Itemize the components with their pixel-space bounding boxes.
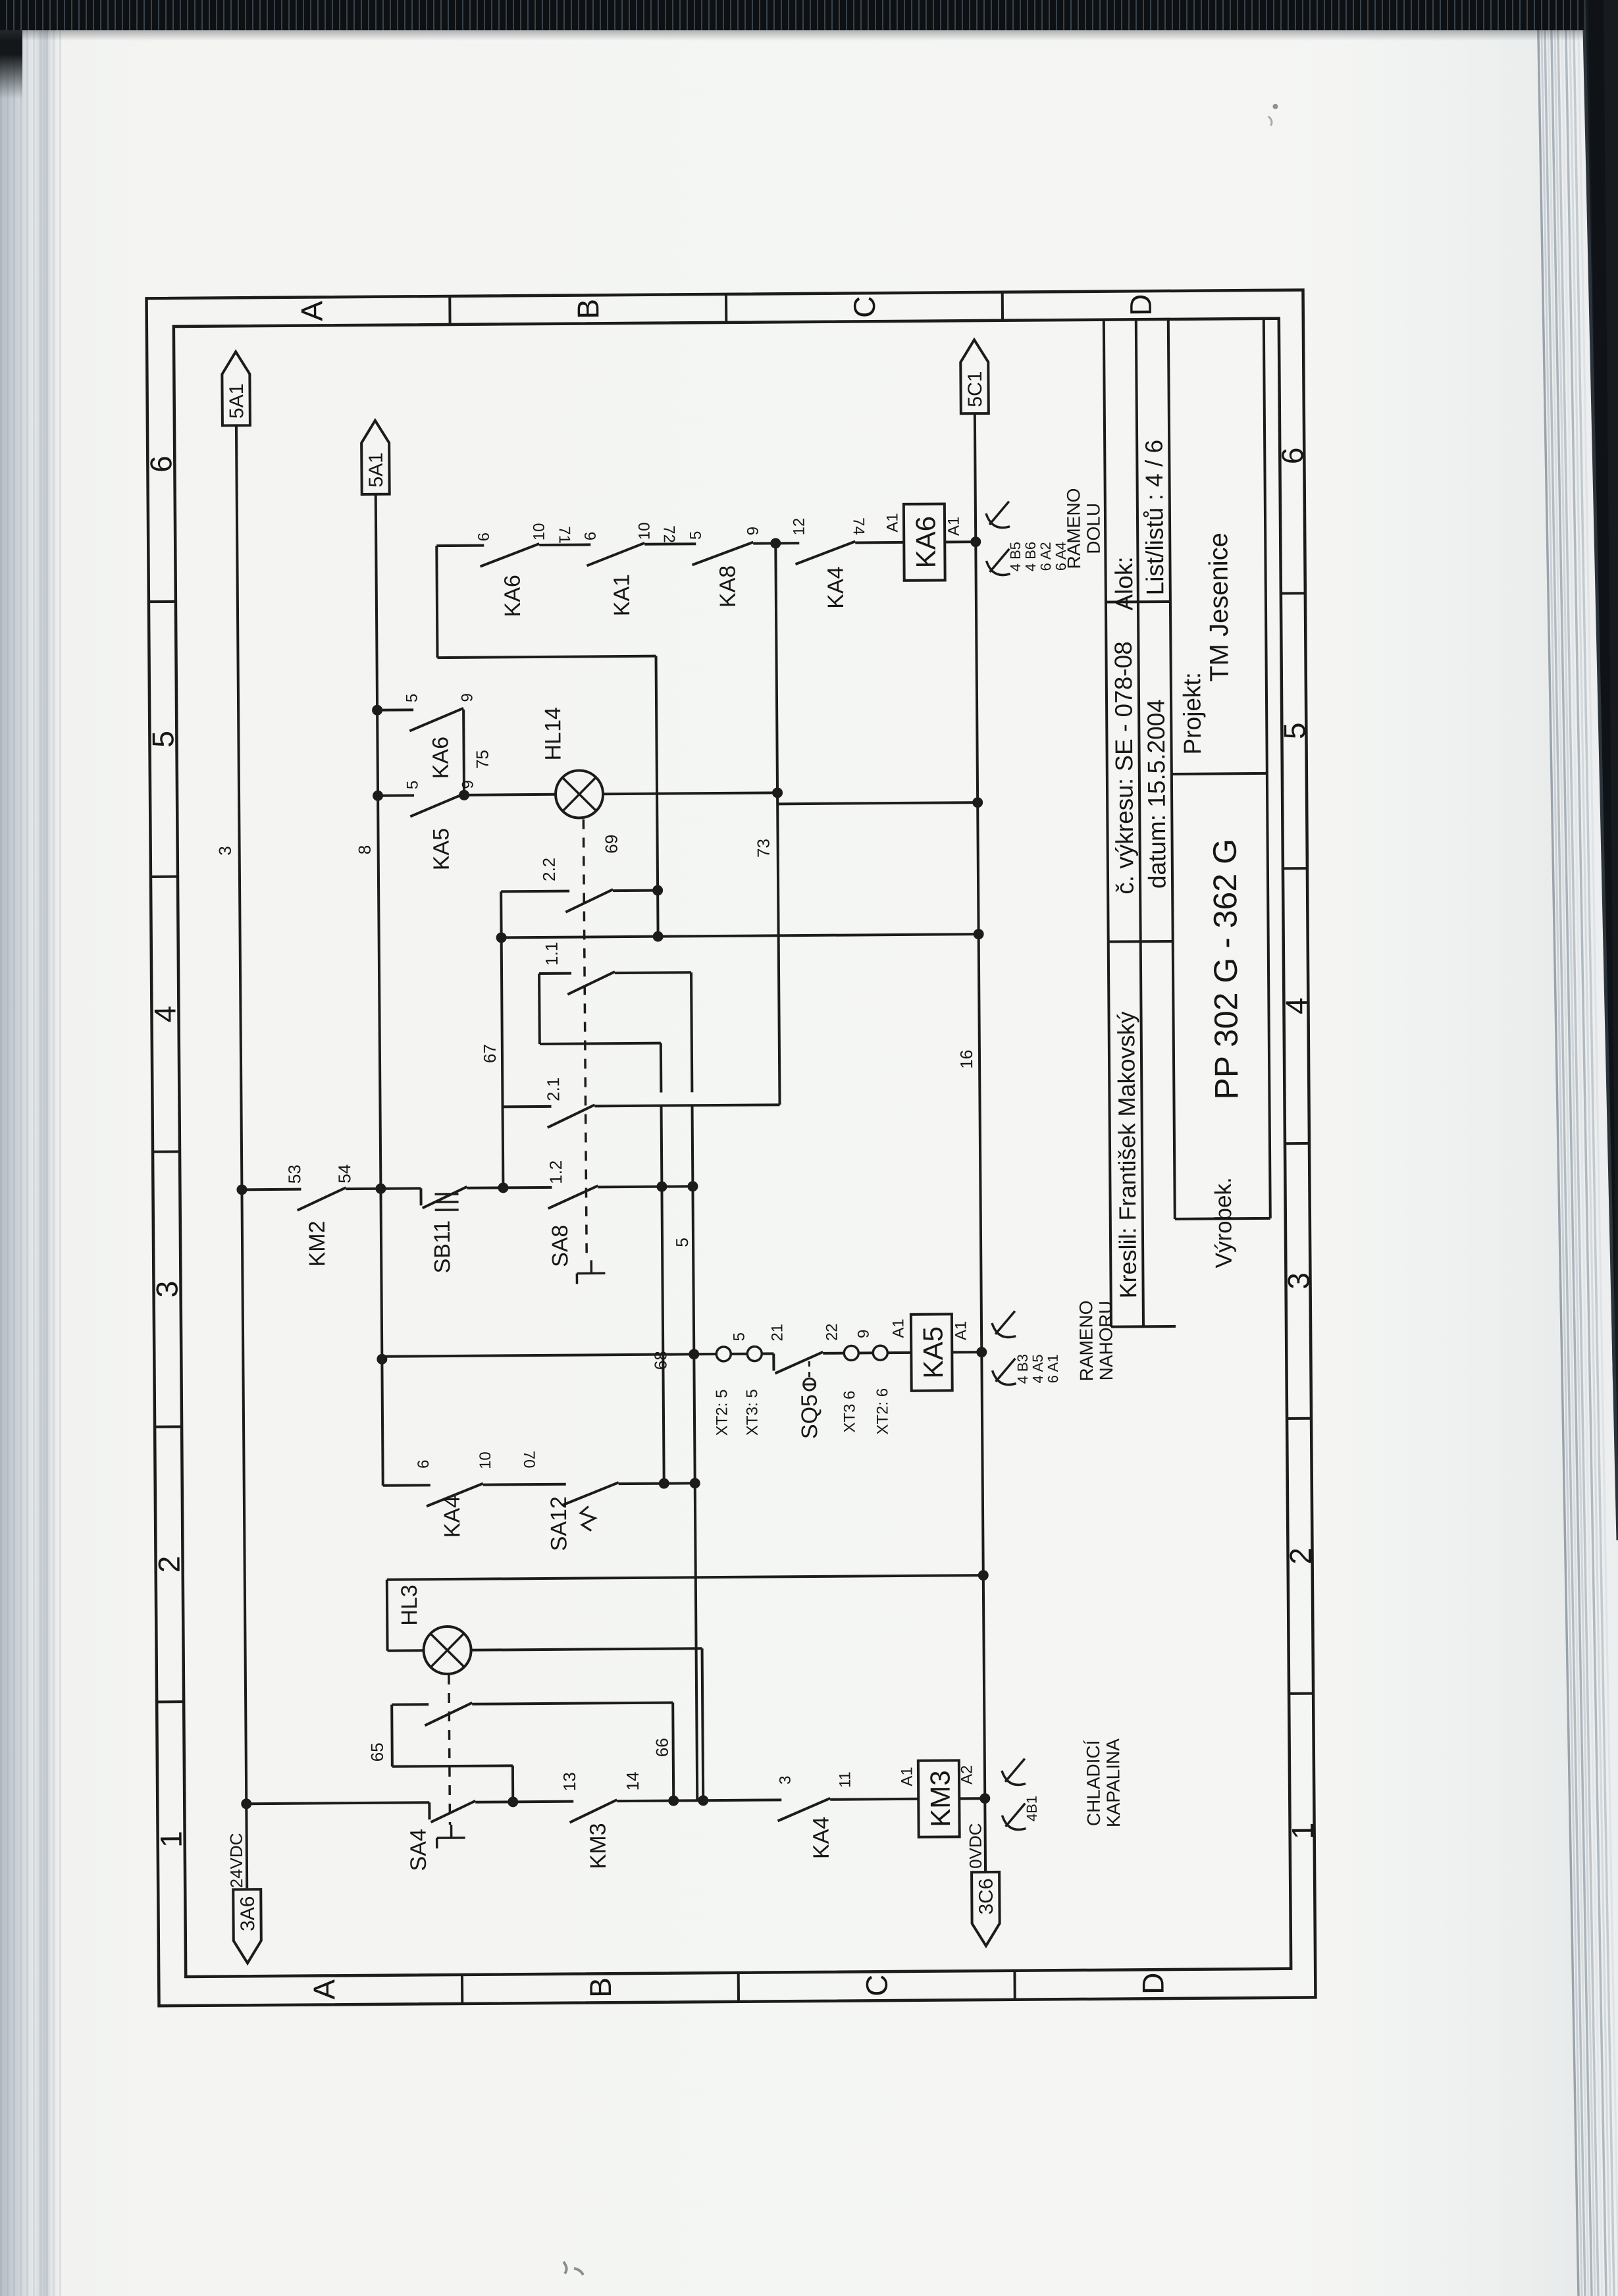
svg-text:8: 8 (355, 845, 375, 855)
svg-text:65: 65 (367, 1742, 387, 1761)
svg-text:datum: 15.5.2004: datum: 15.5.2004 (1143, 699, 1171, 889)
svg-text:0VDC: 0VDC (966, 1823, 986, 1869)
svg-text:3: 3 (776, 1776, 794, 1785)
svg-text:KA5: KA5 (917, 1326, 949, 1379)
svg-text:11: 11 (836, 1771, 854, 1788)
svg-text:A1: A1 (898, 1767, 916, 1787)
svg-text:75: 75 (473, 750, 492, 769)
svg-text:DOLU: DOLU (1083, 503, 1104, 554)
svg-text:A1: A1 (945, 517, 962, 536)
svg-text:PP 302 G - 362 G: PP 302 G - 362 G (1207, 839, 1245, 1100)
svg-text:KM3: KM3 (924, 1770, 956, 1827)
svg-text:SQ5: SQ5 (797, 1394, 822, 1439)
svg-text:KA6: KA6 (910, 516, 941, 569)
svg-text:5C1: 5C1 (964, 371, 986, 407)
svg-text:2: 2 (152, 1555, 186, 1573)
svg-text:CHLADICÍ: CHLADICÍ (1083, 1740, 1104, 1826)
svg-text:D: D (1135, 1972, 1170, 1995)
svg-text:SA12: SA12 (546, 1496, 572, 1551)
svg-text:3A6: 3A6 (237, 1896, 259, 1931)
svg-text:C: C (860, 1974, 894, 1996)
svg-text:5: 5 (403, 694, 421, 703)
svg-text:RAMENO: RAMENO (1063, 488, 1084, 569)
svg-text:67: 67 (480, 1044, 500, 1063)
svg-text:2: 2 (1283, 1548, 1317, 1565)
svg-text:XT2: 6: XT2: 6 (874, 1388, 892, 1435)
svg-text:A2: A2 (958, 1765, 976, 1785)
svg-text:KA5: KA5 (429, 828, 454, 871)
svg-text:SA4: SA4 (406, 1829, 431, 1871)
svg-text:54: 54 (334, 1164, 354, 1184)
svg-text:B: B (583, 1977, 617, 1998)
svg-text:66: 66 (652, 1738, 672, 1757)
svg-text:6: 6 (582, 532, 600, 541)
svg-text:B: B (571, 299, 605, 319)
svg-text:KA6: KA6 (500, 575, 525, 617)
svg-text:A1: A1 (883, 513, 901, 533)
svg-text:5: 5 (145, 731, 180, 748)
svg-text:72: 72 (660, 525, 678, 543)
svg-text:9: 9 (458, 693, 476, 702)
svg-text:XT2: 5: XT2: 5 (713, 1390, 731, 1436)
svg-text:1: 1 (1286, 1823, 1320, 1840)
svg-text:5: 5 (404, 781, 421, 790)
svg-text:74: 74 (849, 517, 867, 535)
svg-text:22: 22 (823, 1323, 841, 1341)
svg-text:5: 5 (672, 1238, 692, 1247)
svg-text:73: 73 (754, 839, 773, 858)
svg-text:6 A2: 6 A2 (1037, 542, 1054, 571)
svg-text:RAMENO: RAMENO (1076, 1300, 1097, 1381)
svg-text:6: 6 (1275, 448, 1309, 465)
svg-text:5: 5 (731, 1332, 748, 1342)
svg-text:9: 9 (855, 1330, 873, 1339)
svg-text:XT3 6: XT3 6 (841, 1390, 858, 1432)
svg-text:6 A1: 6 A1 (1045, 1354, 1061, 1383)
svg-text:č. výkresu: SE - 078-08: č. výkresu: SE - 078-08 (1110, 641, 1139, 895)
svg-text:6: 6 (415, 1460, 432, 1469)
svg-text:KA4: KA4 (808, 1817, 833, 1860)
svg-text:5: 5 (687, 531, 705, 540)
svg-text:1: 1 (154, 1831, 188, 1848)
svg-text:9: 9 (744, 527, 762, 536)
svg-text:2.2: 2.2 (539, 858, 559, 881)
svg-text:A1: A1 (889, 1318, 907, 1338)
svg-text:5A1: 5A1 (226, 384, 248, 419)
svg-text:A: A (307, 1979, 341, 2000)
svg-text:3C6: 3C6 (976, 1878, 997, 1914)
svg-text:KM2: KM2 (305, 1220, 330, 1266)
svg-text:10: 10 (636, 522, 654, 540)
svg-text:6: 6 (475, 533, 493, 542)
svg-text:KA8: KA8 (716, 565, 741, 608)
svg-text:3: 3 (1281, 1272, 1315, 1290)
svg-text:4 B3: 4 B3 (1014, 1354, 1031, 1384)
svg-text:4B1: 4B1 (1024, 1796, 1040, 1821)
svg-text:3: 3 (149, 1281, 184, 1298)
svg-text:4: 4 (1279, 997, 1313, 1014)
svg-text:List/listů : 4 / 6: List/listů : 4 / 6 (1141, 440, 1169, 596)
svg-text:KA1: KA1 (610, 574, 635, 617)
svg-text:A1: A1 (952, 1321, 970, 1341)
svg-text:9: 9 (459, 780, 477, 789)
svg-text:70: 70 (520, 1451, 538, 1469)
svg-text:1.2: 1.2 (546, 1161, 565, 1184)
svg-text:XT3: 5: XT3: 5 (743, 1389, 762, 1436)
svg-text:A: A (294, 301, 328, 321)
svg-text:SA8: SA8 (548, 1225, 573, 1268)
svg-text:SB11: SB11 (430, 1220, 456, 1274)
svg-text:C: C (847, 296, 881, 319)
svg-text:4 B5: 4 B5 (1007, 542, 1024, 571)
svg-text:3: 3 (215, 846, 235, 856)
svg-text:53: 53 (284, 1164, 304, 1184)
svg-text:HL3: HL3 (397, 1584, 422, 1626)
svg-text:KM3: KM3 (586, 1823, 612, 1869)
svg-text:14: 14 (623, 1771, 642, 1790)
svg-text:4 A5: 4 A5 (1030, 1354, 1046, 1383)
svg-text:5A1: 5A1 (365, 452, 387, 488)
svg-text:KA6: KA6 (428, 737, 453, 779)
svg-text:KA4: KA4 (440, 1496, 465, 1538)
svg-text:10: 10 (531, 523, 548, 541)
svg-text:Výrobek.: Výrobek. (1211, 1177, 1237, 1268)
svg-text:2.1: 2.1 (543, 1078, 563, 1101)
svg-text:TM Jesenice: TM Jesenice (1204, 533, 1234, 682)
svg-text:1.1: 1.1 (542, 942, 561, 966)
svg-text:NAHORU: NAHORU (1095, 1301, 1116, 1381)
svg-text:21: 21 (768, 1324, 786, 1342)
svg-text:6: 6 (144, 456, 178, 473)
svg-text:71: 71 (556, 526, 573, 544)
svg-text:HL14: HL14 (540, 707, 566, 761)
svg-text:10: 10 (477, 1451, 494, 1469)
svg-text:69: 69 (602, 835, 621, 854)
svg-text:Alok:: Alok: (1110, 556, 1138, 611)
svg-text:Projekt:: Projekt: (1178, 672, 1206, 755)
svg-text:KA4: KA4 (823, 566, 848, 609)
svg-text:KAPALINA: KAPALINA (1103, 1738, 1124, 1827)
svg-text:13: 13 (560, 1772, 579, 1791)
svg-text:16: 16 (956, 1050, 976, 1069)
svg-text:5: 5 (1277, 722, 1311, 739)
svg-text:4 B6: 4 B6 (1022, 542, 1039, 571)
svg-text:Kreslil: František Makovský: Kreslil: František Makovský (1112, 1011, 1141, 1298)
svg-text:D: D (1124, 294, 1158, 316)
svg-text:4: 4 (147, 1006, 182, 1023)
svg-text:24VDC: 24VDC (226, 1833, 247, 1888)
svg-text:12: 12 (790, 518, 808, 536)
